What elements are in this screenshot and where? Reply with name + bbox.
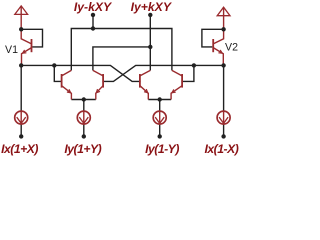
svg-text:Iy+kXY: Iy+kXY — [131, 0, 173, 14]
svg-text:Ix(1+X): Ix(1+X) — [1, 142, 38, 156]
svg-text:Iy(1-Y): Iy(1-Y) — [145, 142, 179, 156]
svg-text:Iy-kXY: Iy-kXY — [74, 0, 113, 14]
svg-text:Ix(1-X): Ix(1-X) — [205, 142, 239, 156]
svg-text:V2: V2 — [225, 42, 238, 54]
svg-text:V1: V1 — [5, 44, 18, 56]
svg-text:Iy(1+Y): Iy(1+Y) — [64, 142, 101, 156]
